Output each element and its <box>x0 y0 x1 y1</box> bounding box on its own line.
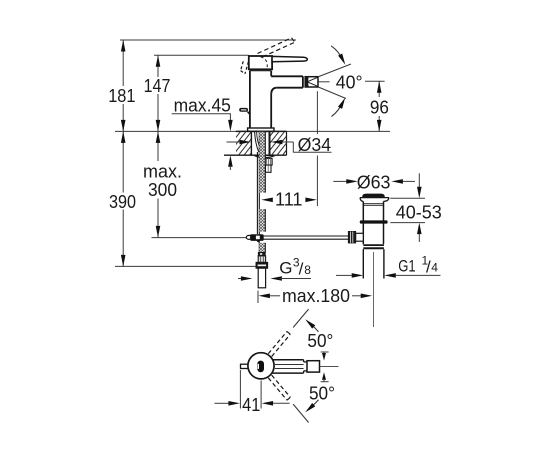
svg-text:40°: 40° <box>336 73 363 93</box>
svg-text:G1: G1 <box>398 256 415 275</box>
svg-text:/: / <box>299 259 304 278</box>
svg-text:50°: 50° <box>309 383 335 403</box>
svg-text:390: 390 <box>109 192 136 212</box>
svg-text:96: 96 <box>370 97 389 117</box>
svg-text:4: 4 <box>431 260 438 274</box>
svg-text:50°: 50° <box>307 331 333 351</box>
svg-text:max.: max. <box>143 161 182 181</box>
svg-text:41: 41 <box>242 395 260 415</box>
svg-text:Ø63: Ø63 <box>357 173 391 193</box>
svg-text:300: 300 <box>148 180 177 200</box>
svg-text:8: 8 <box>304 263 311 277</box>
svg-text:40-53: 40-53 <box>396 202 442 222</box>
svg-text:111: 111 <box>275 190 303 210</box>
svg-text:181: 181 <box>108 86 135 106</box>
svg-text:G: G <box>279 259 292 278</box>
svg-text:max.180: max.180 <box>282 286 350 306</box>
svg-text:147: 147 <box>144 76 171 96</box>
svg-text:Ø34: Ø34 <box>298 135 332 155</box>
svg-text:max.45: max.45 <box>174 95 231 115</box>
